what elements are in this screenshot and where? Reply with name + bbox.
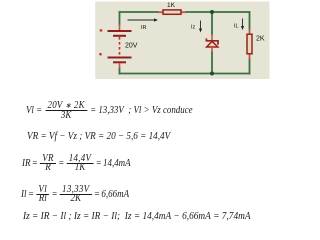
wire: battery top vertical xyxy=(119,12,121,25)
battery BAT1 20V xyxy=(99,25,137,69)
equation line 1 xyxy=(26,102,193,120)
pin: D1 bottom xyxy=(211,47,213,52)
D1 triangle xyxy=(207,41,218,47)
pin: R2 bottom xyxy=(249,54,251,59)
pin: R1 right xyxy=(182,11,187,13)
pin: R1 left xyxy=(158,11,163,13)
svg-text:IR: IR xyxy=(141,25,147,31)
zener diode D1 xyxy=(206,34,218,52)
wire: right vertical bottom xyxy=(249,59,251,74)
svg-text:2K: 2K xyxy=(256,36,265,43)
resistor R2 2K xyxy=(247,29,265,59)
panel background xyxy=(95,2,269,80)
marker dot bottom xyxy=(99,53,101,55)
wire: top horizontal left segment xyxy=(120,11,159,13)
node A: top junction xyxy=(210,10,214,14)
pin: battery bottom xyxy=(119,63,121,68)
wire: zener branch bottom xyxy=(211,52,213,74)
pin: D1 top xyxy=(211,34,213,40)
battery dashed link xyxy=(119,37,121,56)
wire: zener branch top xyxy=(211,12,213,34)
wire: right vertical top xyxy=(249,12,251,29)
svg-text:20V: 20V xyxy=(125,43,138,50)
pin: battery top xyxy=(119,25,121,31)
marker dot top xyxy=(100,29,102,31)
arrow Iz xyxy=(191,21,202,33)
battery plate long bottom xyxy=(108,57,132,59)
wire: battery bottom vertical xyxy=(119,68,121,74)
equation line 2 xyxy=(27,131,170,142)
svg-text:IL: IL xyxy=(234,24,239,30)
equation line 5 xyxy=(23,211,251,222)
arrow IR xyxy=(128,18,159,31)
equation line 4 xyxy=(21,186,129,204)
battery plate short top xyxy=(113,35,126,37)
arrow IL xyxy=(234,19,244,31)
svg-text:Iz: Iz xyxy=(191,25,196,31)
wire: top horizontal right segment xyxy=(186,11,250,13)
battery plate long top xyxy=(108,30,132,32)
equation line 3 xyxy=(22,155,131,173)
R2 body xyxy=(247,34,252,54)
node B: bottom junction xyxy=(210,72,214,76)
battery plate short bottom xyxy=(113,61,126,63)
wire: bottom horizontal xyxy=(120,73,250,75)
resistor R1 1K xyxy=(158,2,186,14)
pin: R2 top xyxy=(249,29,251,34)
D1 cathode bar with ticks xyxy=(206,38,218,44)
R1 body xyxy=(163,10,181,14)
svg-text:1K: 1K xyxy=(167,2,176,9)
